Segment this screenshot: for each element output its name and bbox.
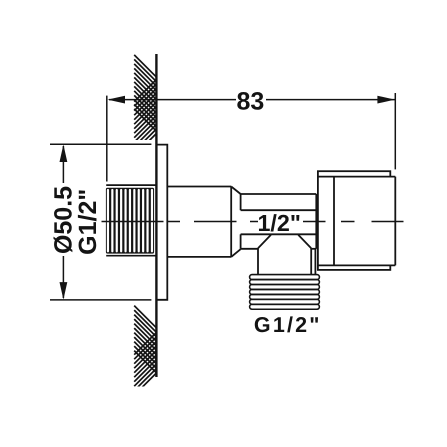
bonnet cap plate	[318, 171, 390, 270]
svg-text:83: 83	[236, 88, 264, 116]
dimension 83 line	[109, 99, 236, 101]
union nut mid-section	[241, 194, 317, 249]
dimension 83 arrow right	[377, 96, 395, 104]
outlet branch neck	[258, 235, 315, 275]
dimension 50.5 line	[62, 146, 64, 183]
dimension 83 extension line left	[106, 96, 108, 182]
dimension 50.5 extension line top	[50, 143, 151, 145]
dimension 50.5 arrow up	[60, 145, 68, 163]
valve head body mask	[334, 177, 395, 266]
dimension 50.5 extension line bottom	[50, 299, 151, 301]
svg-text:1/2": 1/2"	[257, 210, 300, 236]
wall line	[155, 54, 157, 377]
svg-text:G1/2": G1/2"	[254, 313, 322, 337]
top wall hatch	[134, 55, 156, 156]
dimension 83 extension line right	[394, 93, 396, 169]
valve body cylinder	[167, 187, 240, 257]
inlet thread G1/2 (behind wall)	[106, 185, 156, 256]
outlet thread G1/2	[250, 275, 320, 310]
dimension 50.5 arrow down	[60, 282, 68, 300]
dimension 83 arrow left	[108, 96, 126, 104]
svg-text:G1/2": G1/2"	[74, 189, 102, 255]
center axis line	[102, 221, 404, 223]
wall flange	[156, 145, 167, 300]
bottom wall hatch	[134, 306, 156, 396]
valve head square	[318, 177, 395, 266]
